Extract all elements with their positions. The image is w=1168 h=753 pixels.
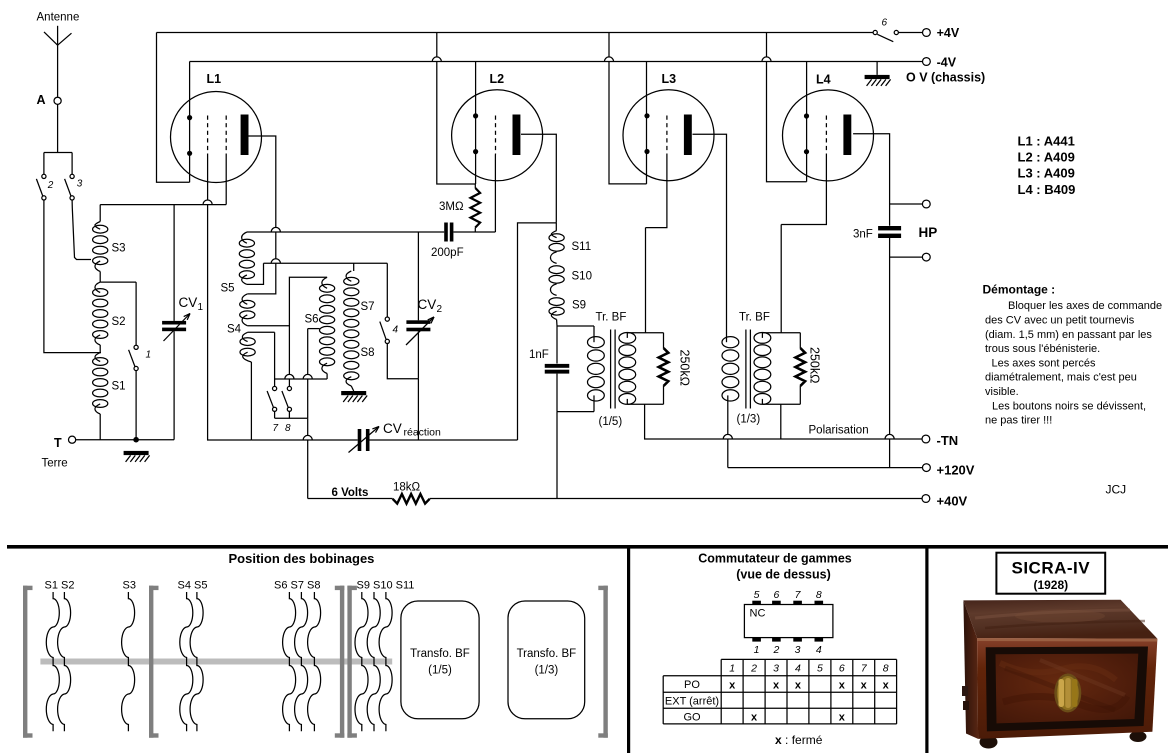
svg-text:x: x bbox=[839, 680, 846, 692]
svg-text:(1/3): (1/3) bbox=[535, 665, 559, 677]
svg-text:x: x bbox=[839, 712, 846, 724]
svg-text:HP: HP bbox=[919, 225, 938, 240]
svg-text:x: x bbox=[729, 680, 736, 692]
svg-text:JCJ: JCJ bbox=[1106, 483, 1127, 497]
svg-text:EXT (arrêt): EXT (arrêt) bbox=[665, 696, 719, 708]
svg-text:Position des bobinages: Position des bobinages bbox=[229, 551, 375, 566]
svg-text:S9: S9 bbox=[572, 300, 586, 312]
svg-text:S6 S7 S8: S6 S7 S8 bbox=[274, 580, 320, 592]
svg-text:Tr. BF: Tr. BF bbox=[739, 312, 770, 324]
svg-text:Les axes sont percés: Les axes sont percés bbox=[992, 357, 1096, 369]
svg-text:T: T bbox=[54, 436, 62, 450]
svg-text:5: 5 bbox=[754, 589, 760, 601]
svg-text:diamétralement, mais c'est peu: diamétralement, mais c'est peu bbox=[985, 372, 1137, 384]
svg-text:A: A bbox=[37, 93, 46, 107]
svg-text:S7: S7 bbox=[361, 301, 375, 313]
svg-text:L4: L4 bbox=[816, 73, 831, 87]
svg-text:200pF: 200pF bbox=[431, 247, 464, 259]
svg-text:x: x bbox=[883, 680, 890, 692]
svg-text:Bloquer les axes de commande: Bloquer les axes de commande bbox=[1008, 300, 1162, 312]
svg-text:1: 1 bbox=[198, 302, 204, 313]
svg-text:Transfo. BF: Transfo. BF bbox=[410, 648, 470, 660]
svg-text:L3 : A409: L3 : A409 bbox=[1018, 166, 1075, 181]
svg-text:18kΩ: 18kΩ bbox=[393, 482, 421, 494]
svg-text:-TN: -TN bbox=[937, 433, 959, 448]
svg-text:O V (chassis): O V (chassis) bbox=[906, 71, 985, 85]
svg-text:Démontage :: Démontage : bbox=[983, 283, 1056, 297]
svg-text:6: 6 bbox=[882, 18, 888, 29]
svg-text:4: 4 bbox=[816, 644, 822, 656]
svg-text:8: 8 bbox=[816, 589, 822, 601]
svg-text:1: 1 bbox=[754, 644, 760, 656]
svg-text:7: 7 bbox=[273, 423, 279, 434]
svg-text:8: 8 bbox=[285, 423, 291, 434]
svg-text:250kΩ: 250kΩ bbox=[678, 350, 692, 386]
svg-text:L1 : A441: L1 : A441 bbox=[1018, 133, 1075, 148]
svg-text:(1/5): (1/5) bbox=[428, 665, 452, 677]
svg-text:(1/3): (1/3) bbox=[737, 414, 761, 426]
svg-text:Commutateur de gammes: Commutateur de gammes bbox=[698, 552, 852, 566]
svg-text:Polarisation: Polarisation bbox=[809, 425, 869, 437]
svg-text:S6: S6 bbox=[305, 314, 319, 326]
svg-text:S11: S11 bbox=[572, 241, 592, 253]
svg-text:S1 S2: S1 S2 bbox=[45, 580, 75, 592]
svg-text:(1928): (1928) bbox=[1033, 578, 1068, 592]
svg-text:(diam. 1,5 mm) en passant par: (diam. 1,5 mm) en passant par les bbox=[985, 329, 1152, 341]
svg-text:L2 : A409: L2 : A409 bbox=[1018, 150, 1075, 165]
svg-text:8: 8 bbox=[883, 663, 889, 675]
svg-text:réaction: réaction bbox=[404, 427, 442, 439]
svg-text:SICRA-IV: SICRA-IV bbox=[1011, 559, 1090, 578]
svg-text:1: 1 bbox=[146, 350, 152, 361]
svg-text:4: 4 bbox=[393, 325, 399, 336]
svg-text:x : fermé: x : fermé bbox=[775, 733, 823, 747]
svg-text:4: 4 bbox=[795, 663, 801, 675]
svg-text:5: 5 bbox=[817, 663, 823, 675]
svg-text:2: 2 bbox=[772, 644, 779, 656]
svg-text:PO: PO bbox=[684, 679, 700, 691]
svg-text:NC: NC bbox=[750, 608, 766, 620]
svg-text:3: 3 bbox=[77, 179, 83, 190]
svg-text:des CV avec un petit tournevis: des CV avec un petit tournevis bbox=[985, 315, 1135, 327]
svg-text:S2: S2 bbox=[112, 316, 126, 328]
svg-text:(vue de dessus): (vue de dessus) bbox=[736, 568, 830, 582]
svg-text:L4 : B409: L4 : B409 bbox=[1018, 182, 1076, 197]
svg-text:3: 3 bbox=[795, 644, 801, 656]
svg-text:S4 S5: S4 S5 bbox=[178, 580, 208, 592]
svg-text:S4: S4 bbox=[227, 324, 242, 336]
svg-text:ne pas tirer !!!: ne pas tirer !!! bbox=[985, 415, 1052, 427]
svg-text:2: 2 bbox=[437, 304, 443, 315]
svg-text:S8: S8 bbox=[361, 347, 375, 359]
svg-text:trous sous l'ébénisterie.: trous sous l'ébénisterie. bbox=[985, 343, 1100, 355]
svg-text:S3: S3 bbox=[112, 243, 126, 255]
svg-text:S5: S5 bbox=[221, 283, 235, 295]
svg-text:3: 3 bbox=[773, 663, 779, 675]
svg-text:L2: L2 bbox=[490, 72, 505, 86]
svg-text:x: x bbox=[861, 680, 868, 692]
svg-text:3MΩ: 3MΩ bbox=[439, 201, 464, 213]
svg-text:L1: L1 bbox=[207, 72, 222, 86]
svg-text:CV: CV bbox=[383, 421, 402, 436]
svg-text:Transfo. BF: Transfo. BF bbox=[517, 648, 577, 660]
svg-text:-4V: -4V bbox=[937, 56, 957, 70]
svg-text:S3: S3 bbox=[123, 580, 136, 592]
svg-text:S10: S10 bbox=[572, 271, 592, 283]
svg-text:CV: CV bbox=[179, 295, 198, 310]
svg-text:x: x bbox=[751, 712, 758, 724]
svg-text:6: 6 bbox=[839, 663, 845, 675]
svg-text:1nF: 1nF bbox=[529, 349, 549, 361]
svg-text:6: 6 bbox=[773, 589, 779, 601]
svg-text:visible.: visible. bbox=[985, 386, 1019, 398]
svg-text:x: x bbox=[773, 680, 780, 692]
svg-text:L3: L3 bbox=[662, 72, 677, 86]
svg-text:Terre: Terre bbox=[42, 458, 68, 470]
svg-text:6 Volts: 6 Volts bbox=[332, 487, 369, 499]
svg-text:3nF: 3nF bbox=[853, 229, 873, 241]
svg-text:2: 2 bbox=[750, 663, 757, 675]
svg-text:+40V: +40V bbox=[937, 494, 968, 509]
svg-text:(1/5): (1/5) bbox=[599, 416, 623, 428]
svg-text:Antenne: Antenne bbox=[37, 12, 80, 24]
svg-text:Tr. BF: Tr. BF bbox=[596, 312, 627, 324]
svg-text:+4V: +4V bbox=[937, 26, 960, 40]
svg-text:x: x bbox=[795, 680, 802, 692]
svg-text:1: 1 bbox=[729, 663, 735, 675]
svg-text:S1: S1 bbox=[112, 381, 126, 393]
svg-text:2: 2 bbox=[47, 180, 54, 191]
svg-text:250kΩ: 250kΩ bbox=[808, 347, 822, 383]
svg-text:+120V: +120V bbox=[937, 463, 975, 478]
svg-text:GO: GO bbox=[683, 712, 701, 724]
svg-text:Les boutons noirs se dévissent: Les boutons noirs se dévissent, bbox=[992, 400, 1146, 412]
svg-text:CV: CV bbox=[418, 297, 437, 312]
svg-text:S9 S10 S11: S9 S10 S11 bbox=[357, 580, 415, 592]
